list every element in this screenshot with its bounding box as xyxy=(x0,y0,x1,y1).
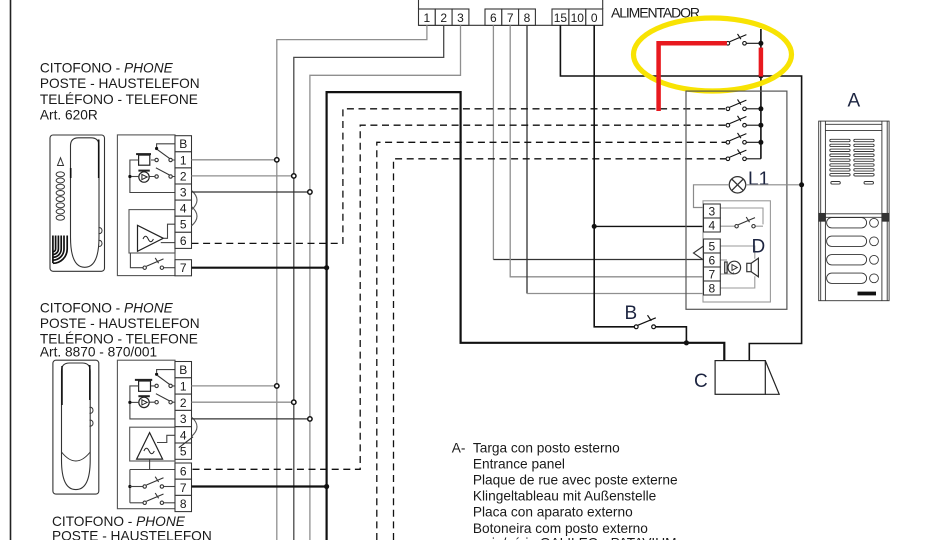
phone2 left rail to hook switches xyxy=(129,470,131,503)
panel small slots xyxy=(831,182,841,185)
yellow highlight ellipse xyxy=(634,18,792,91)
phone1 contact row 1 xyxy=(155,158,158,161)
svg-text:Botoneira com posto externo: Botoneira com posto externo xyxy=(473,521,648,536)
page border xyxy=(10,0,12,540)
svg-text:1: 1 xyxy=(180,153,187,167)
terminal 7 xyxy=(502,9,519,25)
wire phone-7 bus (n-shape) down to lock net xyxy=(327,92,725,540)
terminal 15 xyxy=(552,9,569,25)
phone1 hook switch blade 1 xyxy=(158,150,170,159)
junction phone1-7/bus xyxy=(324,265,329,270)
svg-text:6: 6 xyxy=(180,234,187,248)
svg-text:1: 1 xyxy=(424,11,431,25)
phone2 wire 7 xyxy=(192,485,327,487)
phone2 handset housing xyxy=(53,360,99,494)
dashed call wire 3 xyxy=(377,142,726,540)
phone2 contact row 1 xyxy=(155,384,158,387)
panel top lines xyxy=(825,124,882,130)
svg-text:Art. 620R: Art. 620R xyxy=(40,107,98,122)
D internal switch xyxy=(735,217,755,228)
phone2 buzzer xyxy=(135,379,152,381)
phone1 wire 7 xyxy=(192,267,327,269)
pin labels 1 2 3 6 7 8 15 10 0 xyxy=(424,11,598,25)
dashed call wire 4 xyxy=(394,159,727,540)
phone1 buzzer xyxy=(136,153,151,155)
svg-text:CITOFONO - PHONE: CITOFONO - PHONE xyxy=(40,300,174,315)
phone1 hole column xyxy=(56,172,64,220)
phone1 amp to terminal 6 xyxy=(161,242,175,244)
entrance panel body xyxy=(819,121,889,301)
wire lamp to lock net xyxy=(746,184,802,186)
svg-text:4: 4 xyxy=(180,202,187,216)
wire switch B output to junction xyxy=(653,327,686,343)
junction bus/T15 wire xyxy=(758,74,763,79)
phone2 switch pivot xyxy=(155,373,158,376)
svg-text:3: 3 xyxy=(180,412,187,426)
svg-text:7: 7 xyxy=(180,481,187,495)
svg-text:POSTE - HAUSTELEFON: POSTE - HAUSTELEFON xyxy=(40,316,200,331)
panel side rails xyxy=(821,121,888,301)
svg-text:serie/série GALILEO - PATAVIUM: serie/série GALILEO - PATAVIUM xyxy=(473,535,677,540)
phone1 amp to terminal 5 xyxy=(163,224,175,238)
speaker grille slots xyxy=(830,139,874,176)
junction phone1-1/riser1 xyxy=(275,158,279,162)
D internal wire 5-speaker xyxy=(720,246,755,259)
svg-text:Art. 8870 - 870/001: Art. 8870 - 870/001 xyxy=(40,345,157,360)
wire terminal0 down to D4 tap and switch B xyxy=(594,25,634,327)
phone2 hook switch blade 2 xyxy=(156,394,170,401)
power supply U1 (ALIMENTADOR) box edges xyxy=(419,0,603,25)
svg-text:Placa con aparato externo: Placa con aparato externo xyxy=(473,505,633,520)
phone1 amplifier box xyxy=(129,210,175,253)
svg-text:6: 6 xyxy=(490,11,497,25)
svg-text:2: 2 xyxy=(440,11,447,25)
phone2 amplifier xyxy=(137,433,163,460)
phone1 volume triangle xyxy=(58,158,64,166)
svg-text:B: B xyxy=(179,137,187,151)
phone1 contact row 2 xyxy=(155,175,158,178)
phone1 junction mic/rail xyxy=(128,175,131,178)
phone1 handset xyxy=(71,138,100,267)
svg-text:CITOFONO - PHONE: CITOFONO - PHONE xyxy=(52,514,186,529)
phone2 hook clips xyxy=(90,407,94,426)
svg-text:1: 1 xyxy=(180,380,187,394)
call switch S3 xyxy=(726,116,761,127)
terminal 1 xyxy=(419,9,436,25)
phone1 circuit box xyxy=(117,135,175,276)
svg-text:10: 10 xyxy=(571,11,585,25)
svg-text:5: 5 xyxy=(180,218,187,232)
red highlighted jumper wire (L shape) xyxy=(656,41,727,111)
svg-text:4: 4 xyxy=(709,219,716,233)
svg-text:CITOFONO - PHONE: CITOFONO - PHONE xyxy=(40,61,174,76)
microphone symbol xyxy=(725,261,741,274)
svg-text:7: 7 xyxy=(709,268,716,282)
phone2 junction mic/rail xyxy=(128,401,131,404)
phone1 switch pivot xyxy=(155,147,158,150)
phone2 wire jog at 3/4 xyxy=(192,417,198,436)
loudspeaker symbol xyxy=(747,258,759,277)
phone2 wire 2 xyxy=(192,401,294,403)
svg-text:D: D xyxy=(752,237,766,258)
svg-text:TELÉFONO - TELEFONE: TELÉFONO - TELEFONE xyxy=(40,92,198,107)
phone2 wire 3 xyxy=(192,418,310,420)
call switch S4 xyxy=(726,133,761,144)
svg-text:8: 8 xyxy=(524,11,531,25)
phone2 hook switch blade 1 xyxy=(158,376,170,385)
button row 1 xyxy=(827,218,867,228)
entrance panel internal box xyxy=(686,91,787,309)
phone2 terminal strip xyxy=(175,362,192,512)
phone1 hook switch blade 2 xyxy=(156,168,170,175)
terminal 10 xyxy=(569,9,586,25)
D terminal strip boxes xyxy=(704,204,721,295)
D internal wire 8-speaker xyxy=(720,276,755,288)
junction phone2-7/bus xyxy=(324,484,329,489)
svg-text:2: 2 xyxy=(180,396,187,410)
phone1 buzzer wire from B xyxy=(157,144,175,147)
svg-text:POSTE - HAUSTELEFON: POSTE - HAUSTELEFON xyxy=(52,529,212,540)
wire terminal15 to lamp/lock net xyxy=(560,25,801,360)
svg-text:7: 7 xyxy=(180,261,187,275)
phone2 wire 1 xyxy=(192,385,277,387)
wire terminal1 riser xyxy=(277,25,427,540)
phone2 amplifier box xyxy=(130,427,175,461)
svg-text:3: 3 xyxy=(457,11,464,25)
junction S1/bus xyxy=(758,41,763,46)
phone2 hook switch (line 7) xyxy=(130,486,143,488)
lamp L1 xyxy=(729,177,745,193)
call switch S5 xyxy=(726,149,761,160)
wire terminal6 to D6 xyxy=(492,25,494,259)
D internal wire 7-mic xyxy=(720,272,733,274)
svg-text:8: 8 xyxy=(180,497,187,511)
svg-text:8: 8 xyxy=(709,282,716,296)
svg-text:4: 4 xyxy=(180,428,187,442)
svg-text:15: 15 xyxy=(554,11,568,25)
phone2 crossover slash 4/5 xyxy=(179,437,193,448)
phone1 microphone xyxy=(138,170,149,172)
junction phone2-3/riser3 xyxy=(308,417,312,421)
svg-text:Entrance panel: Entrance panel xyxy=(473,456,565,471)
svg-text:3: 3 xyxy=(180,186,187,200)
phone1 speaker grille strokes xyxy=(53,236,67,264)
phone1 wire 1 xyxy=(192,159,277,161)
svg-text:5: 5 xyxy=(709,240,716,254)
phone2 microphone xyxy=(138,395,149,397)
junction phone2-2/riser2 xyxy=(292,400,296,404)
panel module divider xyxy=(819,214,889,218)
phone1 handset shade lines xyxy=(71,140,99,179)
D internal wire 3-switch xyxy=(720,208,763,226)
svg-text:L1: L1 xyxy=(748,169,769,190)
lock release C box xyxy=(715,361,779,395)
call switch bus xyxy=(760,29,762,159)
panel divider tabs xyxy=(819,213,826,221)
dashed call wire 2 (phone2) xyxy=(193,125,727,469)
call switch S2 xyxy=(726,99,761,110)
junction phone1-3/riser3 xyxy=(308,190,312,194)
svg-text:A: A xyxy=(848,91,861,112)
D pin labels 3 4 5 6 7 8 xyxy=(709,205,716,296)
phone2 handset xyxy=(62,363,91,490)
phone1 amplifier xyxy=(138,225,164,251)
phone2 junction rail/switch7 xyxy=(128,485,131,488)
phone1 wire jogs at 3/4 and 4/5 xyxy=(192,190,198,225)
junction phone1-2/riser2 xyxy=(292,174,296,178)
phone2 hook switch (line 8) xyxy=(130,502,143,504)
switch B xyxy=(634,315,656,328)
phone1 left rail wire xyxy=(130,160,175,193)
button row 4 xyxy=(827,273,867,283)
D internal wire 6-mic xyxy=(720,259,727,261)
phone2 left rail wire xyxy=(130,386,175,419)
wire jog at D5/D6 xyxy=(694,246,704,260)
terminal 3 xyxy=(452,9,469,25)
phone1 hook clips xyxy=(99,228,103,247)
wire terminal0 to D terminal 4 xyxy=(594,225,703,227)
red highlighted bus segment xyxy=(759,48,764,77)
svg-text:3: 3 xyxy=(709,205,716,219)
phone2 contact row 2 xyxy=(155,401,158,404)
svg-text:7: 7 xyxy=(507,11,514,25)
wire terminal3 riser xyxy=(310,25,461,540)
svg-text:0: 0 xyxy=(591,11,598,25)
phone2 handset shade lines xyxy=(62,365,90,405)
phone2 handset lower arc xyxy=(62,452,91,461)
speaker unit D box xyxy=(703,201,770,302)
terminal 8 xyxy=(519,9,536,25)
phone1 pin labels B 1-7 xyxy=(179,137,187,275)
terminal 6 xyxy=(485,9,502,25)
phone2 circuit box xyxy=(117,360,175,509)
junction T0/D4 xyxy=(592,224,597,229)
wire terminal8 to D8 xyxy=(526,25,528,293)
phone1 wire 2 xyxy=(192,175,294,177)
junction phone2-1/riser1 xyxy=(275,384,279,388)
phone1 wire 3 xyxy=(192,191,310,193)
svg-text:Targa con posto esterno: Targa con posto esterno xyxy=(473,440,620,455)
svg-text:B: B xyxy=(625,303,638,324)
terminal 0 xyxy=(586,9,603,25)
svg-text:C: C xyxy=(694,371,708,392)
junction B/C net xyxy=(684,340,689,345)
svg-text:6: 6 xyxy=(180,465,187,479)
svg-text:A-: A- xyxy=(452,440,466,455)
wire terminal2 riser xyxy=(294,25,444,540)
call switch S1 (in highlight) xyxy=(726,34,761,45)
phone2 buzzer wire from B xyxy=(157,370,175,373)
wire lamp to D3 xyxy=(694,185,730,208)
dashed call wire 1 (phone1) xyxy=(192,109,727,244)
wire terminal7 to D7 xyxy=(510,25,703,276)
button row 2 xyxy=(827,236,867,246)
svg-text:B: B xyxy=(179,363,187,377)
svg-text:Plaque de rue avec poste exter: Plaque de rue avec poste externe xyxy=(473,473,678,488)
phone1 terminal strip xyxy=(175,136,192,276)
panel maker logo bar xyxy=(858,292,877,296)
phone2 amp base to terminal 6 xyxy=(130,459,175,469)
svg-text:Klingeltableau mit Außenstelle: Klingeltableau mit Außenstelle xyxy=(473,489,656,504)
svg-text:POSTE - HAUSTELEFON: POSTE - HAUSTELEFON xyxy=(40,76,200,91)
phone1 hook switch (line 7) xyxy=(130,253,143,268)
svg-text:6: 6 xyxy=(709,254,716,268)
junction lamp/lock net xyxy=(799,182,804,187)
terminal 2 xyxy=(435,9,452,25)
button row 3 xyxy=(827,255,867,265)
phone2 pin labels B 1-8 xyxy=(179,363,187,511)
phone2 amp to terminal 4 xyxy=(157,435,175,442)
svg-text:2: 2 xyxy=(180,169,187,183)
phone1 handset housing xyxy=(50,135,105,271)
